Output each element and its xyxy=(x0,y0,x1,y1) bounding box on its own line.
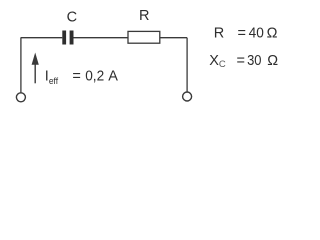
label C xyxy=(67,9,77,25)
wire resistor to top-right corner xyxy=(160,37,187,39)
svg-text:R=40Ω: R=40Ω xyxy=(214,26,278,42)
resistor R body xyxy=(128,31,160,43)
wire top-left horizontal xyxy=(21,37,63,39)
label R (above resistor) xyxy=(139,8,149,24)
svg-text:C: C xyxy=(67,9,77,25)
current arrow I_eff xyxy=(32,53,39,84)
svg-text:XC=30Ω: XC=30Ω xyxy=(209,53,278,70)
label R = 40 Ohm xyxy=(214,26,278,42)
label X_C = 30 Ohm xyxy=(209,53,278,70)
wire left vertical xyxy=(20,38,22,93)
wire capacitor to resistor xyxy=(74,37,129,39)
wire right vertical xyxy=(186,38,188,92)
terminal left (open circle) xyxy=(16,93,25,102)
capacitor C plates xyxy=(62,31,73,45)
svg-text:R: R xyxy=(139,8,149,24)
terminal right (open circle) xyxy=(183,92,192,101)
svg-text:Ieff=0,2A: Ieff=0,2A xyxy=(45,69,118,88)
label I_eff = 0,2 A xyxy=(45,69,118,88)
